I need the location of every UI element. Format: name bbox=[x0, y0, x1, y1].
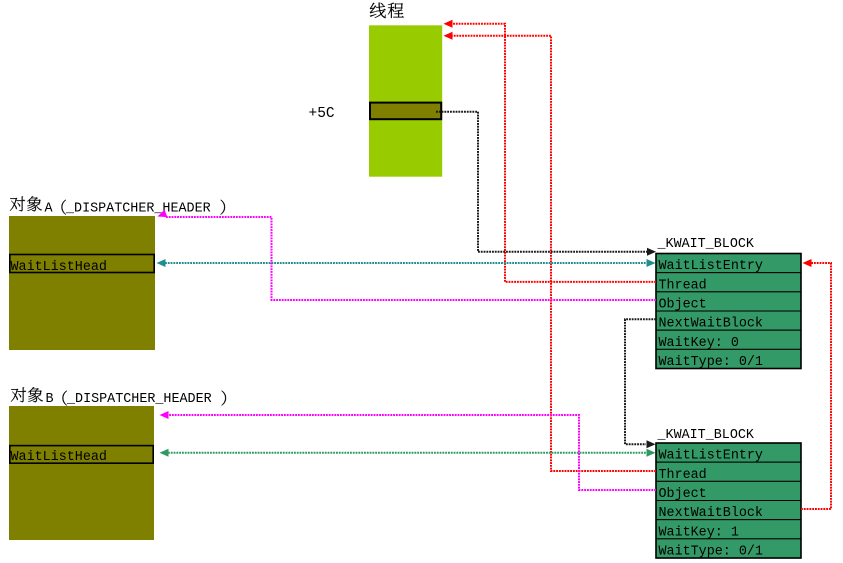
svg-text:B: B bbox=[46, 392, 54, 407]
svg-text:WaitListEntry: WaitListEntry bbox=[659, 449, 763, 464]
struct KWAIT_BLOCK1 outer border bbox=[656, 254, 801, 369]
object B WaitListHead cell bbox=[10, 446, 153, 464]
svg-text:WaitListHead: WaitListHead bbox=[11, 260, 107, 275]
struct KWAIT_BLOCK2 row labels bbox=[659, 449, 763, 560]
svg-text:_KWAIT_BLOCK: _KWAIT_BLOCK bbox=[657, 237, 755, 252]
svg-text:WaitKey: 0: WaitKey: 0 bbox=[659, 336, 739, 351]
+5C WaitListEntry band inside thread bbox=[370, 103, 441, 120]
wire black: thread +5C band -> KWAIT_BLOCK1 top bbox=[436, 112, 656, 256]
struct KWAIT_BLOCK2 outer border bbox=[656, 443, 801, 558]
svg-text:NextWaitBlock: NextWaitBlock bbox=[659, 317, 763, 332]
svg-text:WaitType: 0/1: WaitType: 0/1 bbox=[659, 355, 763, 370]
object A box bbox=[9, 216, 155, 350]
wire black: KWAIT_BLOCK1.NextWaitBlock -> KWAIT_BLOCK2 top bbox=[625, 319, 656, 448]
wire magenta: KWAIT_BLOCK1.Object -> object A header bbox=[156, 210, 656, 300]
thread memory block bbox=[369, 25, 442, 176]
label: object B (_DISPATCHER_HEADER) bbox=[11, 387, 226, 407]
svg-text:A: A bbox=[45, 201, 54, 216]
struct KWAIT_BLOCK2 rows bbox=[656, 443, 801, 558]
svg-text:Thread: Thread bbox=[659, 468, 707, 483]
wire red: KWAIT_BLOCK2.NextWaitBlock -> KWAIT_BLOCK1.WaitListEntry (right side) bbox=[801, 259, 831, 509]
svg-text:_KWAIT_BLOCK: _KWAIT_BLOCK bbox=[657, 428, 755, 443]
wire green: object B WaitListHead <-> KWAIT_BLOCK2.WaitListEntry bbox=[160, 449, 656, 457]
svg-text:NextWaitBlock: NextWaitBlock bbox=[659, 506, 763, 521]
object A WaitListHead cell bbox=[10, 255, 154, 273]
svg-text:WaitType: 0/1: WaitType: 0/1 bbox=[659, 545, 763, 560]
svg-text:Object: Object bbox=[659, 298, 707, 313]
svg-text:WaitListEntry: WaitListEntry bbox=[659, 259, 763, 274]
svg-text:Thread: Thread bbox=[659, 278, 707, 293]
struct KWAIT_BLOCK1 row labels bbox=[659, 259, 763, 370]
label: thread (线程) bbox=[370, 3, 404, 18]
wire magenta: KWAIT_BLOCK2.Object -> object B header bbox=[160, 411, 657, 490]
struct KWAIT_BLOCK1 rows bbox=[656, 254, 801, 369]
svg-text:_DISPATCHER_HEADER: _DISPATCHER_HEADER bbox=[66, 392, 212, 407]
svg-text:WaitKey: 1: WaitKey: 1 bbox=[659, 525, 739, 540]
svg-text:Object: Object bbox=[659, 487, 707, 502]
svg-text:+5C: +5C bbox=[309, 106, 335, 122]
label: object A (_DISPATCHER_HEADER) bbox=[10, 196, 225, 216]
object B box bbox=[9, 406, 154, 540]
wire teal: object A WaitListHead <-> KWAIT_BLOCK1.WaitListEntry bbox=[157, 259, 656, 267]
svg-text:_DISPATCHER_HEADER: _DISPATCHER_HEADER bbox=[65, 201, 211, 216]
wire red: KWAIT_BLOCK2.Thread -> thread box (lower red arrow) bbox=[444, 32, 657, 471]
svg-text:WaitListHead: WaitListHead bbox=[11, 450, 107, 465]
wire red: KWAIT_BLOCK1.Thread -> thread box (upper red arrow) bbox=[444, 20, 657, 282]
